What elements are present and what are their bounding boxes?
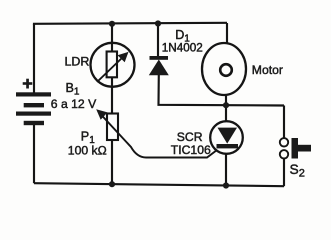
potentiometer P1 (96, 109, 217, 157)
diode D1 (149, 56, 169, 75)
wire P1 bottom lead to bottom rail (111, 140, 113, 185)
wire left branch battery positive lead (33, 24, 35, 93)
wire switch lower lead (283, 158, 285, 186)
svg-text:B1: B1 (66, 81, 80, 98)
svg-text:SCR: SCR (177, 130, 203, 144)
svg-text:1N4002: 1N4002 (162, 41, 203, 54)
node junction bottom rail / SCR (223, 182, 229, 188)
svg-text:TIC106: TIC106 (171, 143, 211, 157)
wire D1 anode lead to middle rail (159, 75, 285, 106)
svg-text:100 kΩ: 100 kΩ (68, 143, 107, 157)
wire top rail from battery+ to motor (34, 23, 227, 25)
wire D1 top lead (157, 24, 159, 58)
wire battery negative lead (33, 124, 35, 183)
wire bottom rail negative bus (34, 183, 284, 186)
wire SCR cathode lead to bottom rail (225, 153, 227, 186)
wire motor top lead (226, 23, 228, 44)
node junction middle rail / motor / SCR (223, 102, 229, 108)
node junction bottom rail / P1 (109, 181, 115, 187)
P1 wiper arm to SCR gate (100, 114, 217, 158)
svg-text:LDR: LDR (65, 55, 90, 69)
node junction top rail / D1 (155, 20, 161, 26)
LDR (91, 43, 135, 87)
wire motor bottom lead to SCR anode (225, 94, 227, 122)
motor M1 (202, 43, 246, 95)
wire LDR top lead (111, 24, 113, 53)
svg-text:Motor: Motor (252, 63, 283, 77)
battery plus polarity mark (23, 79, 33, 89)
SCR TIC106 (210, 121, 243, 154)
wire LDR to P1 (111, 77, 113, 114)
node junction top rail / LDR (109, 21, 115, 27)
pushbutton switch S2 (280, 138, 311, 159)
wire switch upper lead (283, 106, 285, 139)
battery B1 (16, 92, 51, 125)
svg-text:S2: S2 (290, 162, 305, 179)
svg-text:6 a 12 V: 6 a 12 V (51, 97, 97, 111)
